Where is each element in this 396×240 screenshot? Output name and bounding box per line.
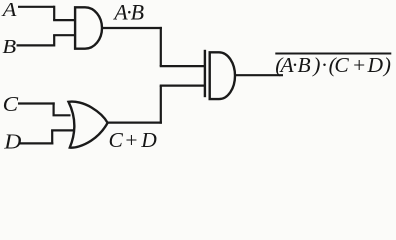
- wire B step up: [53, 35, 55, 46]
- wire C step down: [52, 102, 54, 115]
- NAND gate U3 input bar: [204, 50, 206, 97]
- wire C lead: [18, 102, 55, 104]
- wire AND output vertical drop: [160, 27, 162, 66]
- overline bar over output label: [275, 53, 391, 55]
- svg-text:C: C: [3, 92, 19, 116]
- wire into NAND pin 1: [160, 65, 205, 67]
- NAND gate U3 body: [210, 52, 235, 99]
- svg-text:C+D: C+D: [109, 128, 158, 152]
- wire NAND output: [235, 74, 284, 76]
- OR gate U2: [69, 102, 108, 148]
- wire D step up: [51, 130, 53, 144]
- wire AND output horizontal: [102, 27, 162, 29]
- wire D lead: [19, 142, 53, 144]
- svg-text:A: A: [0, 0, 16, 21]
- svg-text:(A·B)·(C+D): (A·B)·(C+D): [275, 53, 391, 77]
- wire OR output horizontal: [107, 121, 162, 123]
- wire A lead: [18, 6, 54, 8]
- wire C into OR pin 1: [53, 114, 71, 116]
- svg-text:D: D: [3, 130, 21, 154]
- wire into NAND pin 2: [160, 84, 205, 86]
- svg-text:A·B: A·B: [112, 0, 144, 25]
- wire OR output vertical rise: [160, 86, 162, 124]
- wire A into AND pin 1: [53, 19, 74, 21]
- wire B into AND pin 2: [53, 34, 74, 36]
- wire B lead: [17, 44, 55, 46]
- svg-text:B: B: [2, 35, 16, 58]
- wire A step down: [53, 6, 55, 20]
- wire D into OR pin 2: [51, 129, 73, 131]
- AND gate U1: [75, 7, 102, 48]
